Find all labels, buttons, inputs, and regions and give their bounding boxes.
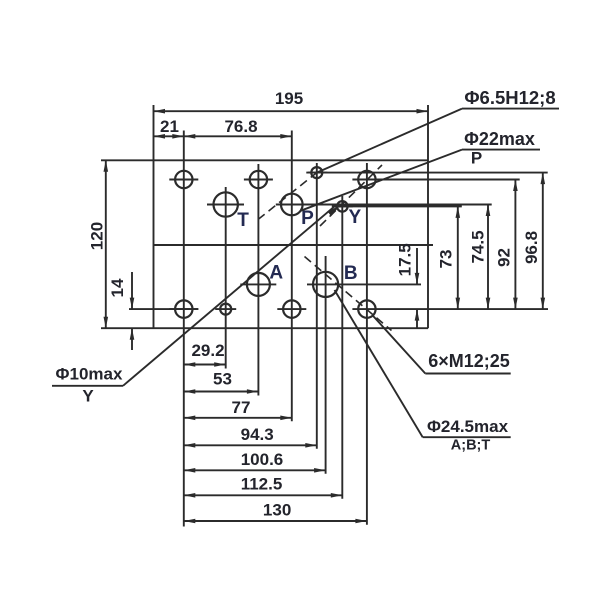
- row line y=14 left part (bottom bolt row, for 14 dim): [129, 308, 198, 310]
- bottom-middle bolt horizontal crosshair: [277, 308, 306, 310]
- dimension 21: [154, 135, 184, 137]
- port P horizontal crosshair: [276, 204, 313, 206]
- plate outline right edge (extended up for 195 dim): [427, 105, 429, 328]
- bottom-left bolt horizontal crosshair: [169, 308, 198, 310]
- extension line column x=21 (left bolts / chain origin): [183, 131, 185, 527]
- svg-text:P: P: [471, 149, 482, 168]
- extension line column x=29.2 (port T / bottom pin): [225, 187, 227, 369]
- port A horizontal crosshair: [240, 283, 276, 285]
- Y row extension line to 73 dim: [333, 205, 462, 207]
- port P circle: [281, 194, 303, 216]
- dimension 29.2: [184, 364, 226, 366]
- dimension 53: [184, 391, 259, 393]
- bolt hole F6 top-right (M12): [358, 171, 375, 188]
- bolt hole F4 top-left (M12): [175, 171, 192, 188]
- svg-text:Y: Y: [82, 386, 94, 405]
- svg-text:29.2: 29.2: [191, 341, 224, 360]
- bolt hole F2 bottom-middle (M12): [283, 300, 300, 317]
- bottom bolt row extension to right dims (96.8 chain base): [352, 308, 548, 310]
- dimension 73 (Y height): [457, 206, 459, 309]
- hole Y circle: [337, 201, 348, 212]
- top pin horizontal crosshair: [306, 172, 327, 174]
- svg-text:76.8: 76.8: [224, 117, 257, 136]
- svg-text:Φ24.5max: Φ24.5max: [427, 417, 509, 436]
- svg-text:Y: Y: [348, 207, 361, 228]
- port B circle: [313, 272, 338, 297]
- dimension 92 (top bolt row): [514, 180, 516, 310]
- dimension 195 overall width: [154, 110, 429, 112]
- dimension 96.8 (top pin height): [542, 173, 544, 310]
- extension line column x=130 (right bolts): [366, 163, 368, 525]
- svg-text:T: T: [237, 210, 249, 231]
- dimension 112.5: [184, 494, 342, 496]
- dimension 74.5 (P/T height): [487, 205, 489, 310]
- dimension 94.3: [184, 444, 317, 446]
- bolt hole F3 bottom-right (M12): [358, 300, 375, 317]
- svg-text:A;B;T: A;B;T: [451, 438, 491, 454]
- hole Y horizontal crosshair: [332, 205, 353, 207]
- dashed line through port B and bottom-right bolt: [305, 257, 392, 331]
- svg-text:17.5: 17.5: [395, 243, 414, 276]
- dimension 120 overall height: [105, 160, 107, 328]
- leader line to port P: [301, 150, 463, 211]
- leader line to bottom-right bolt: [373, 315, 426, 373]
- dimension 77: [184, 417, 292, 419]
- leader line to port B: [335, 290, 423, 437]
- svg-text:6×M12;25: 6×M12;25: [428, 351, 510, 371]
- port A circle: [247, 273, 270, 296]
- svg-text:92: 92: [495, 248, 514, 267]
- port T circle: [214, 192, 238, 216]
- svg-text:53: 53: [213, 369, 232, 388]
- svg-text:112.5: 112.5: [241, 475, 283, 494]
- dashed line through hole Y and top-right bolt: [320, 165, 382, 226]
- svg-text:Φ22max: Φ22max: [464, 129, 535, 149]
- svg-text:73: 73: [437, 250, 456, 269]
- svg-text:195: 195: [275, 89, 303, 108]
- dimension 14 (bottom bolt row): [131, 272, 133, 309]
- dimension 76.8: [184, 135, 292, 137]
- extension line column x=112.5 (hole Y): [341, 196, 343, 499]
- svg-text:94.3: 94.3: [241, 425, 274, 444]
- plate outline bottom edge (with left extension for 120 dim): [101, 327, 428, 329]
- plate horizontal centerline: [154, 244, 434, 246]
- svg-text:100.6: 100.6: [241, 450, 284, 469]
- top pin row extension line to 96.8 dim: [308, 172, 548, 174]
- svg-text:21: 21: [160, 117, 179, 136]
- svg-text:B: B: [344, 263, 358, 284]
- plate outline top edge (with left extension for 120 dim): [101, 159, 428, 161]
- svg-text:74.5: 74.5: [469, 230, 488, 263]
- svg-text:120: 120: [88, 222, 107, 250]
- bottom pin horizontal crosshair: [215, 308, 236, 310]
- P/T row extension line to 74.5 dim: [306, 204, 492, 206]
- dashed line through port P and top pin hole: [258, 173, 317, 220]
- pin hole bottom (6.5H12): [220, 304, 231, 315]
- svg-text:130: 130: [263, 501, 291, 520]
- svg-text:A: A: [269, 262, 283, 283]
- dimension 100.6: [184, 469, 326, 471]
- svg-text:96.8: 96.8: [522, 231, 541, 264]
- svg-text:14: 14: [108, 278, 127, 297]
- svg-text:77: 77: [232, 398, 251, 417]
- dimension 130: [184, 520, 367, 522]
- top-left bolt horizontal crosshair: [169, 179, 198, 181]
- pin hole top (6.5H12): [311, 167, 322, 178]
- leader line to top pin hole: [317, 109, 462, 173]
- top bolt row extension line to 92 dim: [352, 179, 519, 181]
- extension line column x=77 (port P / bottom-middle bolt): [291, 131, 293, 422]
- port T horizontal crosshair: [207, 204, 244, 206]
- bolt hole F5 top-middle (M12): [250, 171, 267, 188]
- plate outline left edge (extended up for 195/21 dims): [153, 105, 155, 328]
- svg-text:Φ6.5H12;8: Φ6.5H12;8: [464, 87, 555, 108]
- svg-text:Φ10max: Φ10max: [56, 365, 123, 384]
- bolt hole F1 bottom-left (M12): [175, 300, 192, 317]
- top-middle bolt horizontal crosshair: [244, 179, 273, 181]
- extension line column x=53 (top-middle bolt / port A): [257, 164, 259, 396]
- leader line from 10max to hole Y with arrow: [123, 207, 334, 386]
- extension line column x=94.3 (top pin hole): [316, 163, 318, 449]
- A/B row extension line to 17.5 dim: [307, 283, 421, 285]
- dimension 17.5 (A/B row above bolt row): [416, 248, 418, 284]
- extension line column x=100.6 (port B): [325, 256, 327, 474]
